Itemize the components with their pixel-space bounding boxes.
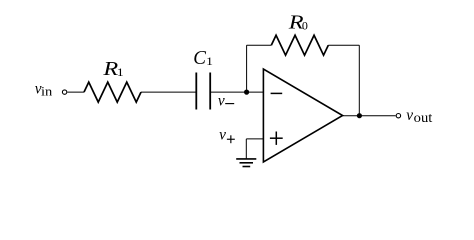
svg-text:1: 1	[117, 65, 124, 79]
svg-text:out: out	[414, 110, 433, 125]
svg-text:1: 1	[206, 54, 213, 68]
svg-text:v: v	[406, 105, 414, 124]
svg-text:0: 0	[302, 18, 308, 32]
svg-text:in: in	[41, 85, 53, 99]
svg-text:v: v	[219, 125, 227, 144]
svg-text:C: C	[193, 47, 206, 69]
svg-text:R: R	[102, 58, 118, 80]
svg-text:v: v	[218, 91, 226, 110]
